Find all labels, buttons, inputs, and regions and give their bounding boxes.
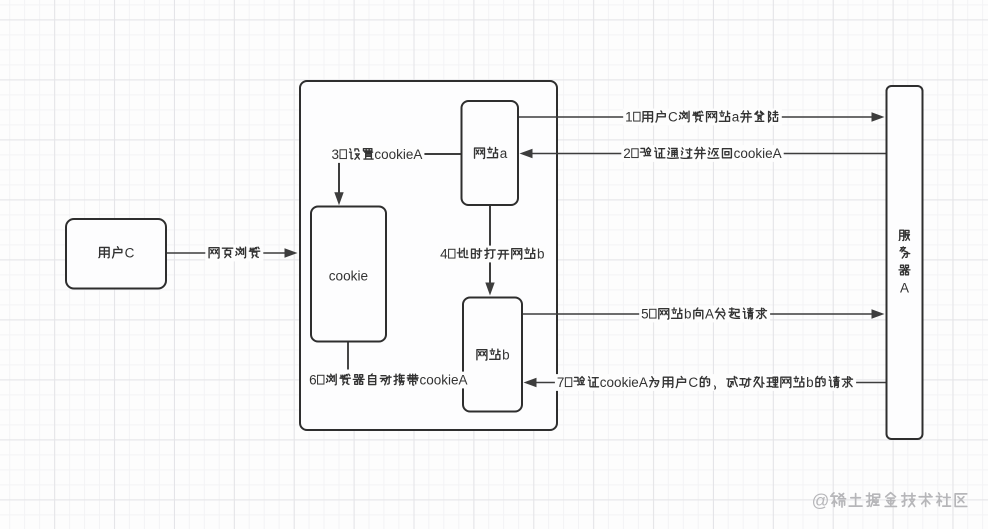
label 3□设置cookieA (330, 146, 425, 163)
svg-text:3: 3 (332, 147, 340, 162)
wire 6: cookie down to label (347, 342, 349, 370)
box 网站b (463, 298, 522, 412)
label 2□验证通过并返回cookieA (621, 145, 783, 162)
arrow 3: 网站a to cookie (elbow) (334, 154, 462, 205)
svg-text:cookieA: cookieA (419, 373, 467, 388)
svg-text:a: a (500, 146, 508, 161)
wire: 用户C to browser container (166, 248, 298, 257)
svg-text:b: b (684, 307, 692, 322)
watermark @稀土掘金技术社区 (812, 491, 967, 511)
svg-text:@: @ (812, 491, 830, 511)
box 服务器A (server) (887, 86, 923, 439)
svg-text:C: C (668, 110, 678, 125)
svg-text:A: A (705, 307, 714, 322)
browser container box (300, 81, 557, 430)
svg-text:b: b (537, 247, 545, 262)
svg-text:5: 5 (641, 307, 649, 322)
label 5□网站b向A发起请求 (639, 306, 770, 323)
label 4□此时打开网站b (438, 246, 546, 263)
svg-text:C: C (125, 246, 135, 261)
label 1□用户C浏览网站a并登陆 (623, 109, 782, 126)
svg-text:4: 4 (440, 247, 448, 262)
svg-text:2: 2 (623, 146, 631, 161)
box 网站a (462, 101, 519, 205)
svg-text:b: b (806, 375, 814, 390)
svg-text:7: 7 (557, 375, 565, 390)
arrow 5: 网站b to 服务器A (522, 309, 885, 318)
label 7□验证cookieA为用户C的，成功处理网站b的请求 (555, 374, 856, 391)
svg-text:a: a (732, 110, 740, 125)
box 用户C (66, 219, 166, 289)
arrow 4: 网站a to 网站b (485, 206, 494, 296)
svg-text:1: 1 (625, 110, 633, 125)
arrow 7: 服务器A to 网站b (524, 378, 887, 387)
svg-text:b: b (502, 348, 510, 363)
label 6□浏览器自动携带cookieA (307, 372, 469, 389)
svg-text:cookie: cookie (329, 268, 368, 283)
svg-text:cookieA: cookieA (734, 146, 782, 161)
svg-text:A: A (900, 281, 909, 296)
svg-text:C: C (688, 375, 698, 390)
svg-text:cookieA: cookieA (600, 375, 648, 390)
svg-text:cookieA: cookieA (374, 147, 422, 162)
svg-text:6: 6 (309, 373, 317, 388)
arrow 1: 网站a to 服务器A (518, 112, 885, 121)
box cookie (311, 207, 386, 342)
arrow 2: 服务器A to 网站a (520, 149, 887, 158)
label 网页浏览 on wire (205, 245, 263, 262)
